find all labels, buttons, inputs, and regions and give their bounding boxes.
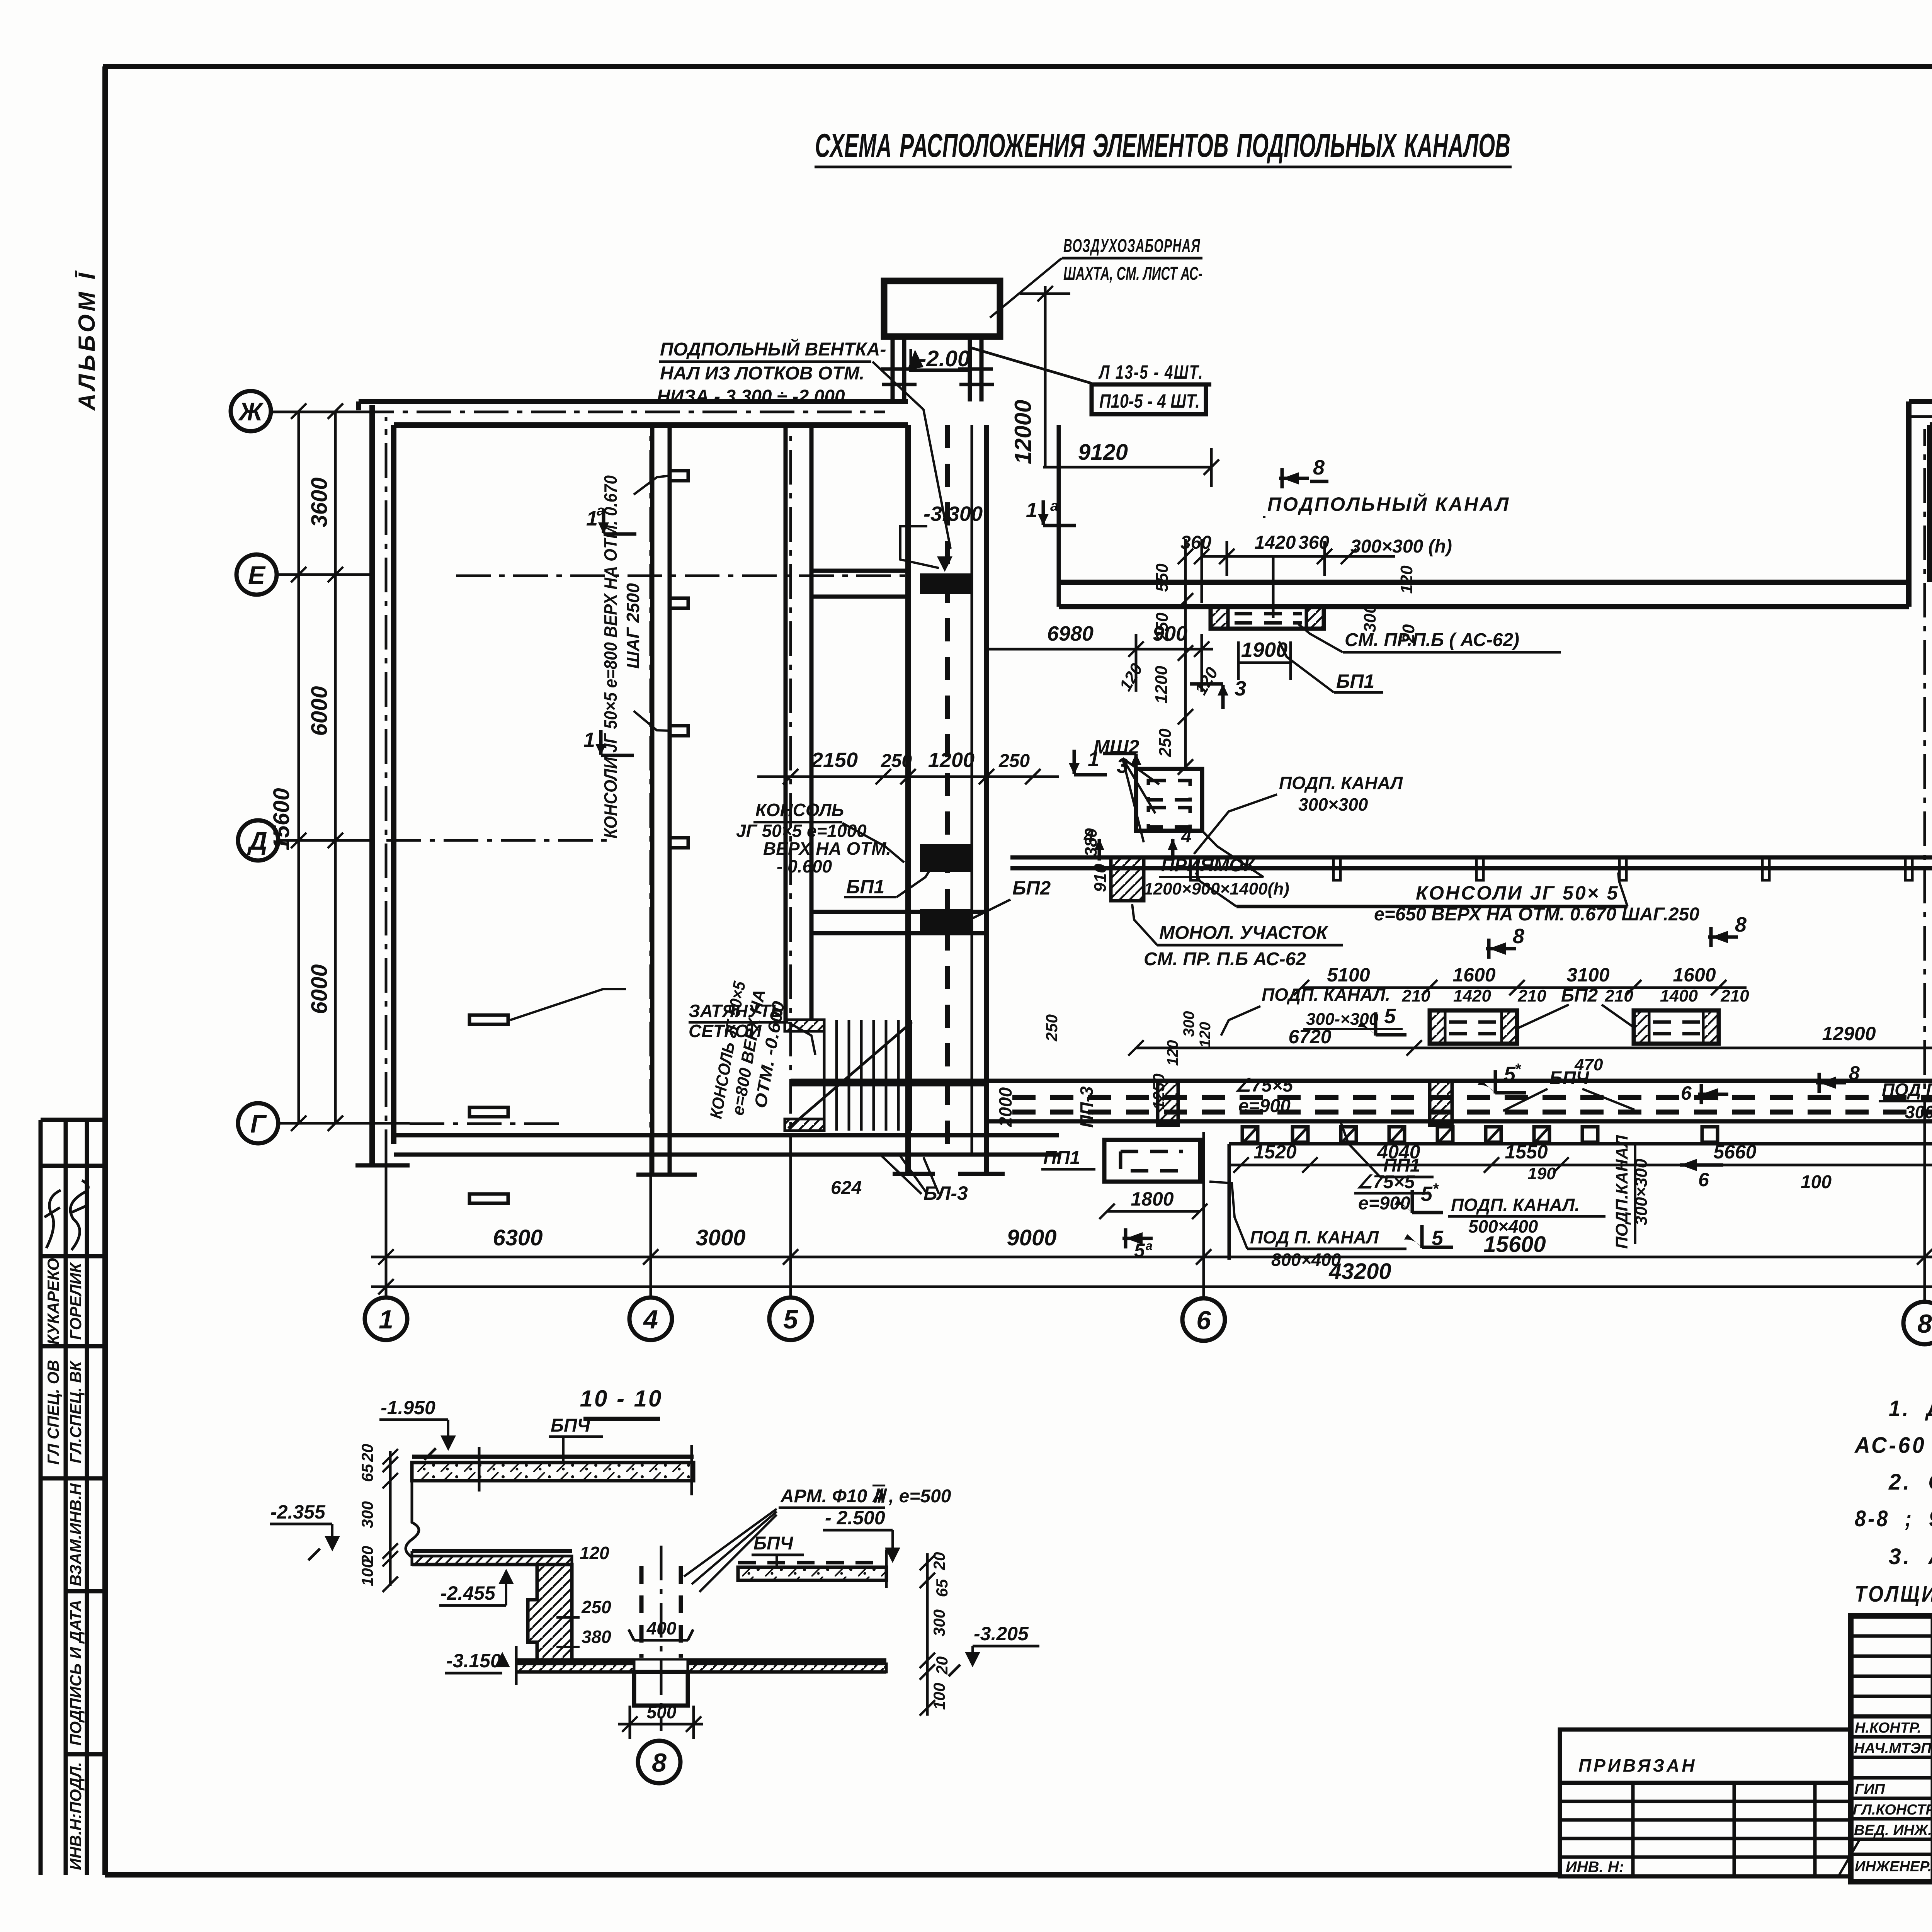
svg-text:8: 8 [652, 1748, 667, 1777]
shaft inner solid line [971, 425, 973, 1155]
svg-text:1400: 1400 [1660, 986, 1698, 1005]
shaft legs [891, 337, 895, 401]
svg-text:АС-60 ; АС-62.: АС-60 ; АС-62. [1854, 1433, 1932, 1458]
svg-text:а: а [1146, 1239, 1153, 1253]
svg-text:Г: Г [250, 1109, 267, 1138]
page border frame [102, 66, 108, 1875]
svg-text:210: 210 [1720, 986, 1749, 1005]
svg-text:1550: 1550 [1505, 1141, 1548, 1163]
svg-text:1200: 1200 [928, 748, 975, 772]
svg-text:250: 250 [998, 751, 1030, 771]
svg-text:9120: 9120 [1078, 440, 1128, 465]
svg-text:12000: 12000 [1010, 400, 1036, 464]
svg-text:20: 20 [933, 1656, 951, 1675]
svg-text:8: 8 [1513, 925, 1524, 948]
svg-text:∠75×5: ∠75×5 [1356, 1172, 1415, 1192]
gap in slab for pillar [634, 1660, 688, 1672]
svg-text:-2.00: -2.00 [919, 346, 970, 371]
svg-text:ГЛ.КОНСТР.: ГЛ.КОНСТР. [1853, 1802, 1932, 1818]
svg-text:100: 100 [930, 1683, 948, 1710]
stair hatched landing top [785, 1020, 824, 1031]
svg-text:ПОДПИСЬ И ДАТА: ПОДПИСЬ И ДАТА [66, 1600, 85, 1746]
svg-text:БП1: БП1 [846, 876, 884, 898]
svg-text:15600: 15600 [269, 788, 294, 850]
svg-text:20: 20 [1399, 624, 1418, 643]
svg-text:3. АРМАТУРУ УКЛАДЫВАТЬ В С: 3. АРМАТУРУ УКЛАДЫВАТЬ В СЛОЕ БЕТОНА М 2… [1889, 1544, 1932, 1569]
axis 4 line [650, 1171, 652, 1298]
svg-text:65: 65 [933, 1579, 951, 1597]
axis 1 line [385, 1164, 388, 1298]
arm leader lines [684, 1509, 777, 1592]
console ticks middle wall [1190, 857, 1197, 880]
middle slab [412, 1549, 572, 1553]
axis 5 line [789, 1171, 792, 1298]
center dash-dot of pillar [660, 1546, 663, 1731]
channel hatch block 1 [1158, 1081, 1178, 1125]
wall segment stair to shaft [811, 910, 986, 914]
svg-text:400: 400 [646, 1618, 677, 1638]
svg-text:∠75×5: ∠75×5 [1235, 1075, 1293, 1096]
black duct block 3 [920, 909, 972, 931]
corner channel box lower-left [1104, 1140, 1200, 1182]
svg-text:МШ2: МШ2 [1094, 736, 1139, 758]
svg-text:СХЕМА РАСПОЛОЖЕНИЯ ЭЛЕМЕНТОВ П: СХЕМА РАСПОЛОЖЕНИЯ ЭЛЕМЕНТОВ ПОДПОЛЬНЫХ … [815, 127, 1510, 164]
svg-text:-2.355: -2.355 [270, 1501, 326, 1523]
svg-text:300×300: 300×300 [1905, 1102, 1932, 1122]
svg-text:ТОЛЩИНОЙ 50 ММ. ЗАЩИТНЫЙ С: ТОЛЩИНОЙ 50 ММ. ЗАЩИТНЫЙ СЛОЙ СНИЗУ - 10… [1855, 1581, 1932, 1607]
svg-text:ВОЗДУХОЗАБОРНАЯ: ВОЗДУХОЗАБОРНАЯ [1063, 236, 1201, 256]
500 dim [618, 1723, 703, 1726]
под.п.канал 300х300 label right [1816, 1062, 1860, 1093]
axis 6 line [1202, 1132, 1205, 1299]
svg-text:ПОДП. КАНАЛ.: ПОДП. КАНАЛ. [1451, 1195, 1580, 1215]
svg-text:СМ. ПР.П.Б ( АС-62): СМ. ПР.П.Б ( АС-62) [1345, 630, 1519, 650]
svg-text:Д: Д [247, 827, 267, 855]
svg-text:120: 120 [580, 1543, 609, 1563]
leader БП2 [1519, 1005, 1634, 1028]
svg-text:8: 8 [1735, 913, 1747, 936]
underfloor vent shaft walls [905, 425, 911, 1173]
svg-text:ПРИВЯЗАН: ПРИВЯЗАН [1578, 1755, 1697, 1776]
svg-text:КУКАРЕКО: КУКАРЕКО [44, 1258, 62, 1345]
5 mark bottom [1404, 1225, 1453, 1250]
left vertical dimension line outer [334, 411, 337, 1123]
section mark 8 top [1279, 456, 1328, 488]
svg-text:ИНВ. Н:: ИНВ. Н: [1566, 1859, 1624, 1876]
svg-text:3600: 3600 [307, 477, 332, 527]
svg-text:ГЛ СПЕЦ. ОВ: ГЛ СПЕЦ. ОВ [44, 1360, 62, 1464]
svg-text:ПОД П. КАНАЛ: ПОД П. КАНАЛ [1250, 1227, 1379, 1247]
bottom slab [516, 1658, 886, 1663]
svg-text:500: 500 [647, 1702, 677, 1722]
dim 12900 line [1414, 1047, 1932, 1049]
svg-text:5: 5 [783, 1305, 798, 1334]
6 mark [1681, 1082, 1728, 1104]
svg-text:1: 1 [586, 507, 598, 530]
left wing outer wall axis 1 [369, 405, 375, 1164]
120 / 300 / 20 small dims right of БП1 [1184, 539, 1187, 769]
axis circle 6 [1182, 1298, 1225, 1341]
svg-text:ПОДП.КАНАЛ: ПОДП.КАНАЛ [1612, 1135, 1631, 1249]
svg-text:1900: 1900 [1241, 638, 1287, 662]
axis circle Д left [238, 820, 278, 861]
svg-text:ПОД П.КАНАЛ: ПОД П.КАНАЛ [1882, 1080, 1932, 1100]
axis circle 1 [365, 1298, 407, 1340]
svg-text:1420: 1420 [1453, 986, 1491, 1005]
axis circle Г left [238, 1103, 278, 1143]
wall break squiggle [406, 1481, 419, 1557]
svg-text:10 - 10: 10 - 10 [580, 1386, 663, 1412]
svg-text:*: * [1515, 1061, 1522, 1078]
console squares under channel [1242, 1127, 1718, 1142]
svg-text:е=900: е=900 [1238, 1096, 1291, 1116]
svg-text:8: 8 [1849, 1062, 1860, 1084]
svg-text:НАЛ ИЗ ЛОТКОВ ОТМ.: НАЛ ИЗ ЛОТКОВ ОТМ. [660, 363, 864, 384]
svg-text:- 0.600: - 0.600 [777, 856, 832, 876]
svg-text:1420: 1420 [1255, 532, 1296, 553]
axis Г line [278, 1122, 410, 1125]
svg-text:1800: 1800 [1131, 1188, 1173, 1210]
leader from label box to shaft leg [971, 348, 1092, 383]
svg-text:300×300 (h): 300×300 (h) [1350, 536, 1452, 557]
svg-text:МОНОЛ. УЧАСТОК: МОНОЛ. УЧАСТОК [1159, 923, 1329, 943]
axis 8 line [1923, 1132, 1926, 1303]
axis Д line [277, 839, 373, 842]
svg-text:-3.150: -3.150 [446, 1650, 501, 1672]
horizontal dimension 9120 [1043, 466, 1211, 469]
svg-text:а: а [597, 503, 605, 519]
svg-text:210: 210 [1517, 986, 1546, 1005]
svg-text:6: 6 [1681, 1082, 1692, 1104]
shaft footing flare [893, 1172, 935, 1176]
svg-text:1: 1 [583, 728, 595, 752]
upper grid rows [1851, 1636, 1932, 1696]
shaft inner dash line [945, 425, 950, 1155]
МШ2 leaders [1122, 758, 1159, 842]
svg-text:-3.300: -3.300 [923, 502, 983, 526]
section mark 1a upper-left [586, 503, 636, 534]
section mark 1 lower-left [583, 728, 634, 755]
svg-text:, е=500: , е=500 [888, 1486, 951, 1507]
left dim stack [389, 1451, 392, 1586]
svg-text:БП2: БП2 [1012, 877, 1051, 899]
axis circle 4 [629, 1298, 672, 1340]
svg-text:8: 8 [1313, 456, 1325, 479]
svg-text:1: 1 [379, 1305, 393, 1334]
svg-text:5: 5 [1432, 1226, 1444, 1250]
strip signature squiggles [44, 1190, 61, 1248]
console ticks on interior wall [670, 471, 688, 481]
svg-text:2150: 2150 [811, 748, 858, 772]
signature squiggles [1839, 1723, 1932, 1875]
svg-text:500×400: 500×400 [1468, 1216, 1538, 1236]
svg-text:ПОДПОЛЬНЫЙ ВЕНТКА-: ПОДПОЛЬНЫЙ ВЕНТКА- [660, 338, 886, 360]
БП1 channel element on axis Ж [1211, 607, 1324, 629]
5* mark lower [1395, 1180, 1443, 1213]
dim 360 1420 360 over БП1 [1202, 555, 1395, 558]
svg-text:ПОДПОЛЬНЫЙ КАНАЛ: ПОДПОЛЬНЫЙ КАНАЛ [1267, 493, 1510, 515]
svg-text:250: 250 [581, 1597, 611, 1617]
привязан annex table [1560, 1730, 1851, 1876]
dim chain 5100 1600 3100 1600 [1301, 986, 1747, 989]
svg-text:120: 120 [1116, 660, 1146, 694]
section mark 5a [1122, 1228, 1153, 1261]
svg-text:250: 250 [1156, 728, 1175, 757]
hatched wall column [528, 1565, 572, 1660]
svg-text:4: 4 [643, 1305, 658, 1334]
svg-text:ИНВ.Н:ПОДЛ.: ИНВ.Н:ПОДЛ. [66, 1762, 85, 1870]
svg-text:120: 120 [1164, 1040, 1181, 1066]
svg-text:3: 3 [1235, 677, 1246, 700]
svg-text:100: 100 [358, 1559, 376, 1586]
svg-text:Н.КОНТР.: Н.КОНТР. [1855, 1720, 1921, 1736]
svg-text:6720: 6720 [1288, 1026, 1331, 1048]
axis circle 5 [769, 1298, 812, 1340]
svg-text:12900: 12900 [1822, 1023, 1876, 1044]
svg-text:П10-5 - 4 ШТ.: П10-5 - 4 ШТ. [1099, 390, 1200, 412]
5 section mark mid [1451, 1016, 1452, 1017]
400 dim [634, 1639, 688, 1642]
dim chain 2150 250 1200 250 [757, 776, 1059, 778]
dashed column above pillar [639, 1566, 644, 1658]
section mark 3 up [1190, 677, 1246, 709]
svg-text:800×400: 800×400 [1271, 1250, 1341, 1270]
svg-text:ГЛ.СПЕЦ. ВК: ГЛ.СПЕЦ. ВК [66, 1360, 85, 1464]
-2.00 level mark [909, 369, 968, 372]
right dim stack [926, 1553, 929, 1716]
8 mark near БПЧ [1486, 925, 1524, 959]
svg-text:6: 6 [1196, 1306, 1211, 1335]
vertical dimension 12000 [1044, 286, 1047, 467]
svg-text:120: 120 [1397, 565, 1416, 594]
notes paragraph [1854, 1396, 1932, 1607]
svg-text:4: 4 [1083, 826, 1094, 847]
svg-text:3100: 3100 [1566, 964, 1609, 986]
svg-text:5100: 5100 [1327, 964, 1370, 986]
svg-text:Л 13-5 - 4ШТ.: Л 13-5 - 4ШТ. [1099, 361, 1204, 383]
svg-text:Ж: Ж [238, 397, 264, 426]
МШ2 pit box [1136, 769, 1202, 831]
svg-text:СМ. ПР. П.Б АС-62: СМ. ПР. П.Б АС-62 [1144, 949, 1306, 969]
bottom dimension chain line [371, 1256, 1932, 1259]
svg-text:ГИП: ГИП [1855, 1781, 1885, 1798]
left vertical dimension line inner [298, 411, 300, 1123]
lower dim chain 1520 4040 1550 5660 [1229, 1142, 1932, 1146]
svg-text:20: 20 [358, 1444, 376, 1463]
title block vertical lines [1931, 1616, 1932, 1882]
svg-text:ШАХТА, СМ. ЛИСТ АС-: ШАХТА, СМ. ЛИСТ АС- [1063, 264, 1202, 284]
svg-text:1520: 1520 [1253, 1141, 1296, 1163]
svg-text:е=900: е=900 [1358, 1193, 1410, 1214]
svg-text:6300: 6300 [493, 1225, 543, 1250]
svg-text:1600: 1600 [1452, 964, 1495, 986]
air intake shaft box [884, 281, 1000, 337]
axis Е line [275, 573, 373, 576]
axis Ж line [270, 411, 359, 413]
leader to шахта [990, 258, 1062, 318]
svg-text:3000: 3000 [696, 1225, 745, 1250]
svg-text:БПЧ: БПЧ [1549, 1068, 1590, 1088]
leg break marks [881, 367, 916, 371]
svg-text:100: 100 [1801, 1172, 1832, 1192]
svg-text:5: 5 [1504, 1063, 1516, 1086]
svg-text:КОНСОЛИ ЈГ 50× 5: КОНСОЛИ ЈГ 50× 5 [1416, 882, 1619, 904]
svg-text:АРМ. Ф10 А: АРМ. Ф10 А [780, 1486, 886, 1507]
svg-text:НИЗА - 3.300 ÷ -2.000: НИЗА - 3.300 ÷ -2.000 [657, 386, 845, 407]
right wing left wall axis 8 [1906, 401, 1912, 607]
10-10 top slab [412, 1455, 694, 1459]
channel hatch block 2 [1430, 1081, 1452, 1125]
svg-text:5: 5 [1384, 1005, 1396, 1028]
svg-text:ИНЖЕНЕР.: ИНЖЕНЕР. [1855, 1859, 1932, 1875]
svg-text:- 2.500: - 2.500 [825, 1507, 885, 1529]
БП2 box 2 [1634, 1010, 1719, 1044]
middle section top wall [1059, 580, 1909, 585]
svg-text:1: 1 [1026, 498, 1037, 522]
svg-text:БПЧ: БПЧ [753, 1533, 794, 1554]
leaders to console ticks [634, 476, 670, 495]
section mark 4 pair [1083, 826, 1104, 861]
svg-text:ВЕРХ НА ОТМ.: ВЕРХ НА ОТМ. [763, 838, 891, 859]
left margin signature strip [41, 1120, 105, 1875]
stair hatched landing bottom [785, 1119, 824, 1131]
svg-text:300: 300 [1180, 1011, 1197, 1037]
svg-text:ГОРЕЛИК: ГОРЕЛИК [66, 1262, 85, 1340]
svg-text:ПП1: ПП1 [1043, 1148, 1080, 1168]
right slab [738, 1561, 886, 1565]
svg-text:4: 4 [1181, 826, 1192, 847]
svg-text:БП1: БП1 [1336, 670, 1374, 692]
svg-text:2. СЕЧЕНИЕ 1-1; 1ª-1ª; 2-2;: 2. СЕЧЕНИЕ 1-1; 1ª-1ª; 2-2; 3-3; 4-4; 5ª… [1888, 1469, 1932, 1495]
svg-text:-3.205: -3.205 [974, 1623, 1029, 1645]
svg-text:8-8 ; 9-9 СМОТРИ ЛИСТ АС-: 8-8 ; 9-9 СМОТРИ ЛИСТ АС-62. [1855, 1506, 1932, 1531]
svg-text:250: 250 [1043, 1014, 1061, 1042]
svg-text:550: 550 [1153, 563, 1172, 592]
channel wall along Г upper line [791, 1079, 1932, 1083]
svg-text:65: 65 [358, 1464, 376, 1482]
leaders from консоль text [842, 823, 904, 862]
svg-text:6000: 6000 [307, 686, 332, 736]
svg-text:Е: Е [248, 561, 266, 589]
svg-text:300: 300 [930, 1609, 948, 1636]
svg-text:300×300: 300×300 [1298, 794, 1368, 815]
svg-text:190: 190 [1527, 1164, 1556, 1183]
svg-text:1600: 1600 [1673, 964, 1716, 986]
channel dashed inner lines [1012, 1095, 1932, 1100]
dim 1800 [1107, 1210, 1200, 1213]
монолитный участок hatch [1111, 857, 1144, 901]
svg-text:НАЧ.МТЭП: НАЧ.МТЭП [1854, 1740, 1932, 1757]
svg-text:624: 624 [831, 1178, 862, 1198]
svg-text:ЈГ 50×5 е=1000: ЈГ 50×5 е=1000 [736, 821, 867, 841]
svg-text:5: 5 [1134, 1240, 1145, 1261]
stair treads [824, 1020, 911, 1131]
pillar under slab [634, 1672, 688, 1706]
svg-text:БЛ-3: БЛ-3 [923, 1182, 968, 1204]
left wing top wall axis Ж [359, 399, 908, 404]
dim 6720 line [1136, 1047, 1414, 1049]
svg-text:380: 380 [582, 1627, 611, 1647]
svg-text:АЛЬБОМ Ī: АЛЬБОМ Ī [74, 270, 100, 411]
dim 6980 / 900 [986, 648, 1213, 651]
stair diagonal [788, 1022, 912, 1128]
axis circle Ж left [231, 391, 271, 431]
svg-text:5: 5 [1421, 1182, 1433, 1206]
svg-text:20: 20 [930, 1552, 948, 1571]
section mark 1 center [1069, 748, 1107, 775]
signature rows [1851, 1737, 1932, 1854]
black duct block 2 [920, 844, 972, 872]
svg-text:360: 360 [1298, 532, 1329, 553]
axis circle 8 [1903, 1302, 1932, 1344]
5* mark [1478, 1061, 1526, 1094]
svg-text:*: * [1432, 1180, 1439, 1197]
svg-text:БПЧ: БПЧ [551, 1415, 591, 1436]
wall hook ticks left lower [469, 1015, 508, 1024]
svg-text:1200×900×1400(h): 1200×900×1400(h) [1144, 879, 1289, 898]
axis circle 8 of section [638, 1741, 680, 1783]
signature names [1853, 1720, 1932, 1875]
svg-text:БП2: БП2 [1561, 985, 1598, 1006]
svg-text:1200: 1200 [1152, 666, 1171, 704]
leader from вентканал text [872, 362, 951, 549]
channel wall along Г lower line [986, 1119, 1932, 1124]
svg-text:-2.455: -2.455 [440, 1582, 496, 1604]
black duct block 1 [920, 573, 972, 594]
svg-text:ВЕД. ИНЖ.: ВЕД. ИНЖ. [1854, 1822, 1932, 1838]
interior wall c to shaft [811, 569, 908, 573]
svg-text:8: 8 [1917, 1309, 1932, 1338]
svg-text:КОНСОЛЬ: КОНСОЛЬ [755, 800, 844, 820]
title block outer box [1851, 1616, 1932, 1882]
svg-text:ШАГ 2500: ШАГ 2500 [623, 583, 643, 669]
svg-text:1. ДАННЫЙ ЛИСТ ЧИТАТЬ СОВМ: 1. ДАННЫЙ ЛИСТ ЧИТАТЬ СОВМЕСТНО С ЛИСТАМ… [1889, 1396, 1932, 1421]
svg-text:210: 210 [1604, 986, 1633, 1005]
svg-text:210: 210 [1401, 986, 1430, 1005]
right wing top wall [1909, 399, 1932, 404]
section mark 3 left [1103, 753, 1141, 779]
section mark 1a right [1026, 498, 1076, 526]
svg-text:5660: 5660 [1713, 1141, 1756, 1163]
svg-text:ВЗАМ.ИНВ.Н: ВЗАМ.ИНВ.Н [66, 1483, 85, 1586]
svg-text:300: 300 [358, 1501, 376, 1528]
axis circle Е left [236, 554, 277, 595]
svg-text:120: 120 [1191, 664, 1222, 698]
svg-text:6980: 6980 [1047, 622, 1094, 645]
interior wall b on axis 5 [784, 425, 788, 1020]
overall dimension line 43200 [371, 1286, 1932, 1288]
svg-text:-1.950: -1.950 [381, 1397, 435, 1418]
6 arrow on dim [1680, 1159, 1723, 1190]
консоли wall middle [1010, 855, 1932, 860]
svg-text:ПОДП. КАНАЛ: ПОДП. КАНАЛ [1279, 773, 1403, 793]
bottom wall left wing [394, 1133, 1059, 1138]
dim 1900 [1238, 662, 1291, 664]
interior wall a [650, 425, 655, 1173]
svg-text:9000: 9000 [1007, 1225, 1056, 1250]
svg-text:250: 250 [1153, 612, 1172, 641]
svg-text:4040: 4040 [1377, 1141, 1420, 1163]
БП2 box 1 [1430, 1010, 1517, 1044]
svg-text:6000: 6000 [307, 964, 332, 1014]
svg-text:6: 6 [1698, 1169, 1709, 1190]
svg-text:120: 120 [1197, 1022, 1214, 1048]
